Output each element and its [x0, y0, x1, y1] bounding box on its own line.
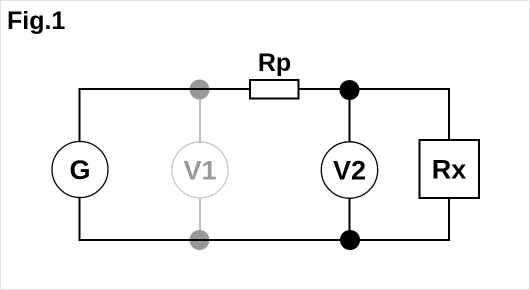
svg-text:V1: V1 [183, 156, 216, 186]
generator G [52, 142, 108, 198]
wire V2 bottom branch [349, 198, 351, 240]
wire top left (corner to resistor) [80, 89, 250, 142]
wire V2 top branch [349, 89, 351, 142]
svg-text:Rx: Rx [432, 155, 467, 185]
wire top right (resistor to corner to Rx) [299, 89, 449, 140]
svg-text:G: G [69, 155, 90, 185]
resistor Rp body [250, 80, 299, 99]
node B (bottom, gray) [190, 230, 210, 250]
node A (top, gray) [190, 80, 210, 100]
svg-text:Rp: Rp [258, 49, 291, 77]
junction top (black) [340, 80, 360, 100]
resistor Rx body [420, 140, 480, 198]
junction bottom (black) [340, 230, 360, 250]
voltmeter V2 [321, 142, 377, 198]
wire V1 top branch (gray) [199, 89, 201, 143]
wire V1 bottom branch (gray) [199, 197, 201, 240]
svg-text:Fig.1: Fig.1 [7, 7, 65, 35]
wire bottom (Rx to corner to G) [80, 198, 450, 241]
svg-text:V2: V2 [333, 156, 366, 186]
voltmeter V1 [172, 142, 228, 198]
